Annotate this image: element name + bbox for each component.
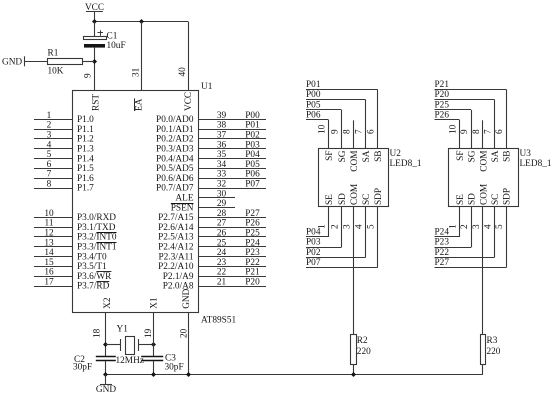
node pin20/ground xyxy=(186,372,191,377)
svg-text:30pF: 30pF xyxy=(73,362,92,372)
svg-text:8: 8 xyxy=(342,129,352,134)
ground symbol GND bottom xyxy=(96,374,116,395)
svg-text:P23: P23 xyxy=(245,248,260,258)
svg-text:P22: P22 xyxy=(245,258,260,268)
wire net P21 to U3 SB xyxy=(435,89,507,91)
svg-text:8: 8 xyxy=(47,180,52,190)
svg-text:39: 39 xyxy=(217,111,227,121)
svg-text:10: 10 xyxy=(448,124,458,134)
wire R1 to RST node xyxy=(83,61,95,63)
wire ground rail xyxy=(106,374,483,376)
node C3/ground xyxy=(151,372,156,377)
svg-text:P07: P07 xyxy=(306,258,321,268)
svg-text:SD: SD xyxy=(338,193,348,205)
svg-text:P0.0/AD0: P0.0/AD0 xyxy=(156,115,194,125)
svg-text:16: 16 xyxy=(44,268,54,278)
wire U1 pin 34 stub xyxy=(199,168,267,170)
svg-text:P1.3: P1.3 xyxy=(77,145,94,155)
svg-text:P00: P00 xyxy=(306,90,321,100)
svg-text:C1: C1 xyxy=(107,32,118,42)
node X2/crystal junction xyxy=(103,342,108,347)
svg-text:P05: P05 xyxy=(245,160,260,170)
svg-text:P20: P20 xyxy=(245,278,260,288)
svg-text:AT89S51: AT89S51 xyxy=(201,316,236,326)
wire net P00 to U2 SA xyxy=(306,99,366,101)
svg-text:SC: SC xyxy=(362,194,372,205)
svg-text:COM: COM xyxy=(350,184,360,205)
wire U1 pin 29 stub xyxy=(199,207,236,209)
wire net P03 to U2 SD xyxy=(306,247,341,249)
capacitor C1 10uF xyxy=(84,30,126,51)
svg-text:P3.4/T0: P3.4/T0 xyxy=(77,252,107,262)
svg-text:P3.2/INT0: P3.2/INT0 xyxy=(77,233,117,243)
wire U1 pin 12 stub xyxy=(34,236,72,238)
wire EA pin 31 xyxy=(141,22,143,92)
svg-text:COM: COM xyxy=(350,151,360,172)
svg-text:X1: X1 xyxy=(150,297,160,309)
svg-text:7: 7 xyxy=(47,170,52,180)
wire U2 COM top pin xyxy=(353,120,355,148)
svg-text:18: 18 xyxy=(93,328,103,338)
svg-text:P1.5: P1.5 xyxy=(77,164,94,174)
U1 pin name EA (active low) xyxy=(134,98,144,111)
power symbol VCC xyxy=(85,3,104,22)
svg-text:9: 9 xyxy=(84,73,94,78)
wire net P25 to U3 SG xyxy=(435,109,472,111)
wire U1 pin 8 stub xyxy=(34,188,72,190)
wire C1 to RST pin 9 xyxy=(94,48,96,91)
wire U1 pin 33 stub xyxy=(199,178,267,180)
wire U1 pin 10 stub xyxy=(34,217,72,219)
svg-text:P06: P06 xyxy=(306,111,321,121)
svg-text:P24: P24 xyxy=(245,238,260,248)
wire U1 pin 24 stub xyxy=(199,256,267,258)
svg-text:R2: R2 xyxy=(357,336,368,346)
svg-text:220: 220 xyxy=(357,347,371,357)
wire U1 pin 17 stub xyxy=(34,286,72,288)
svg-text:P24: P24 xyxy=(435,227,450,237)
IC U2 LED8_1 body xyxy=(319,149,389,207)
U1 pin name PSEN xyxy=(171,203,194,213)
svg-text:21: 21 xyxy=(217,278,227,288)
resistor R1 10K xyxy=(48,49,83,77)
svg-text:P26: P26 xyxy=(245,219,260,229)
svg-text:11: 11 xyxy=(45,219,54,229)
svg-text:P3.6/WR: P3.6/WR xyxy=(77,272,112,282)
svg-text:2: 2 xyxy=(47,121,52,131)
wire U1 pin 23 stub xyxy=(199,266,267,268)
svg-text:P04: P04 xyxy=(245,150,260,160)
wire U1 pin 30 stub xyxy=(199,197,236,199)
svg-text:P23: P23 xyxy=(435,238,450,248)
svg-text:31: 31 xyxy=(132,67,142,77)
svg-text:33: 33 xyxy=(217,170,227,180)
U1 pin name P3.3/INT1 xyxy=(77,243,117,253)
svg-text:P2.7/A15: P2.7/A15 xyxy=(158,213,194,223)
svg-text:13: 13 xyxy=(44,238,54,248)
svg-text:SF: SF xyxy=(456,151,466,161)
svg-text:GND: GND xyxy=(96,385,116,395)
capacitor C3 30pF xyxy=(141,354,176,364)
node RST/R1 junction xyxy=(92,59,97,64)
svg-text:8: 8 xyxy=(472,129,482,134)
wire GND to R1 xyxy=(24,61,48,63)
wire U1 pin 1 stub xyxy=(34,119,72,121)
svg-text:SDP: SDP xyxy=(374,188,384,205)
svg-text:P2.1/A9: P2.1/A9 xyxy=(163,272,194,282)
svg-text:4: 4 xyxy=(355,224,365,229)
wire U1 pin 14 stub xyxy=(34,256,72,258)
svg-text:U3: U3 xyxy=(520,149,532,159)
svg-text:2: 2 xyxy=(460,224,470,229)
U1 pin name P3.6/WR xyxy=(77,272,112,282)
svg-text:P0.3/AD3: P0.3/AD3 xyxy=(156,145,194,155)
wire U1 pin 22 stub xyxy=(199,276,267,278)
wire U1 pin 13 stub xyxy=(34,246,72,248)
wire VCC to C1 xyxy=(94,22,96,37)
svg-text:30: 30 xyxy=(217,189,227,199)
svg-text:P1.1: P1.1 xyxy=(77,125,94,135)
svg-text:SF: SF xyxy=(325,151,335,161)
svg-text:32: 32 xyxy=(217,180,227,190)
svg-text:P1.7: P1.7 xyxy=(77,184,94,194)
svg-text:SG: SG xyxy=(338,150,348,162)
wire U1 pin 37 stub xyxy=(199,138,267,140)
svg-text:17: 17 xyxy=(44,278,54,288)
wire U1 pin 6 stub xyxy=(34,168,72,170)
svg-text:X2: X2 xyxy=(103,297,113,309)
wire U1 pin 7 stub xyxy=(34,178,72,180)
wire U1 pin 15 stub xyxy=(34,266,72,268)
svg-text:35: 35 xyxy=(217,150,227,160)
svg-text:P1.0: P1.0 xyxy=(77,115,94,125)
wire U1 pin 25 stub xyxy=(199,246,267,248)
svg-text:4: 4 xyxy=(47,140,52,150)
wire U1 pin 38 stub xyxy=(199,129,267,131)
svg-text:SB: SB xyxy=(502,151,512,162)
svg-text:25: 25 xyxy=(217,238,227,248)
svg-text:PSEN: PSEN xyxy=(171,203,194,213)
svg-text:P1.6: P1.6 xyxy=(77,174,94,184)
svg-text:P3.1/TXD: P3.1/TXD xyxy=(77,223,116,233)
svg-text:P1.4: P1.4 xyxy=(77,154,94,164)
svg-text:P03: P03 xyxy=(306,238,321,248)
wire U2 COM bottom to resistor xyxy=(353,207,355,335)
wire U1 pin 39 stub xyxy=(199,119,267,121)
svg-text:P02: P02 xyxy=(306,248,321,258)
wire VCC pin 40 xyxy=(188,22,190,92)
wire U1 pin 35 stub xyxy=(199,158,267,160)
svg-text:7: 7 xyxy=(355,129,365,134)
svg-text:SG: SG xyxy=(468,150,478,162)
ground port GND left xyxy=(2,56,25,67)
IC U1 AT89S51 body xyxy=(73,91,199,313)
wire net P06 to U2 SF xyxy=(306,119,329,121)
svg-text:COM: COM xyxy=(479,151,489,172)
resistor R2 220 xyxy=(351,335,372,365)
wire U1 pin 2 stub xyxy=(34,129,72,131)
svg-text:36: 36 xyxy=(217,140,227,150)
svg-text:10uF: 10uF xyxy=(107,41,126,51)
svg-text:P0.7/AD7: P0.7/AD7 xyxy=(156,184,194,194)
svg-text:SA: SA xyxy=(362,150,372,162)
svg-text:P04: P04 xyxy=(306,227,321,237)
svg-text:28: 28 xyxy=(217,209,227,219)
wire U1 pin 27 stub xyxy=(199,227,267,229)
svg-text:29: 29 xyxy=(217,199,227,209)
svg-text:RST: RST xyxy=(92,94,102,111)
svg-text:3: 3 xyxy=(342,224,352,229)
svg-text:P27: P27 xyxy=(245,209,260,219)
wire R3 to ground rail xyxy=(482,365,484,375)
svg-text:LED8_1: LED8_1 xyxy=(390,159,422,169)
wire net P27 to U3 SDP xyxy=(435,267,507,269)
svg-text:5: 5 xyxy=(47,150,52,160)
svg-text:P2.2/A10: P2.2/A10 xyxy=(158,262,194,272)
wire net P22 to U3 SC xyxy=(435,257,495,259)
svg-text:SD: SD xyxy=(468,193,478,205)
svg-text:15: 15 xyxy=(44,258,54,268)
svg-text:12: 12 xyxy=(44,229,54,239)
svg-text:23: 23 xyxy=(217,258,227,268)
svg-text:3: 3 xyxy=(472,224,482,229)
wire C2 to ground rail xyxy=(105,361,107,374)
svg-text:3: 3 xyxy=(47,131,52,141)
svg-text:EA: EA xyxy=(134,98,144,111)
wire U3 COM bottom to resistor xyxy=(482,207,484,335)
svg-text:37: 37 xyxy=(217,131,227,141)
svg-text:COM: COM xyxy=(479,184,489,205)
wire U1 pin 5 stub xyxy=(34,158,72,160)
svg-text:10: 10 xyxy=(44,209,54,219)
wire U1 pin 28 stub xyxy=(199,217,267,219)
svg-text:SB: SB xyxy=(374,151,384,162)
svg-text:P0.5/AD5: P0.5/AD5 xyxy=(156,164,194,174)
svg-text:P01: P01 xyxy=(245,121,260,131)
svg-text:9: 9 xyxy=(330,129,340,134)
svg-text:P27: P27 xyxy=(435,258,450,268)
svg-text:P21: P21 xyxy=(245,268,260,278)
node VCC/C1 junction xyxy=(92,19,97,24)
wire net P05 to U2 SG xyxy=(306,109,341,111)
svg-text:19: 19 xyxy=(144,328,154,338)
svg-text:P3.7/RD: P3.7/RD xyxy=(77,282,110,292)
svg-text:VCC: VCC xyxy=(184,92,194,111)
svg-text:P07: P07 xyxy=(245,180,260,190)
node R2/ground xyxy=(351,372,356,377)
svg-text:P2.5/A13: P2.5/A13 xyxy=(158,233,194,243)
svg-text:7: 7 xyxy=(483,129,493,134)
capacitor C2 30pF xyxy=(74,355,116,365)
svg-text:12MHz: 12MHz xyxy=(116,356,144,366)
svg-text:P2.3/A11: P2.3/A11 xyxy=(158,252,193,262)
svg-text:P2.6/A14: P2.6/A14 xyxy=(158,223,194,233)
svg-text:P03: P03 xyxy=(245,140,260,150)
wire R2 to ground rail xyxy=(353,365,355,375)
svg-text:6: 6 xyxy=(495,129,505,134)
wire net P24 to U3 SE xyxy=(435,236,460,238)
svg-text:5: 5 xyxy=(495,224,505,229)
svg-text:P05: P05 xyxy=(306,101,321,111)
svg-text:220: 220 xyxy=(487,347,501,357)
svg-text:P21: P21 xyxy=(435,80,450,90)
svg-text:P0.4/AD4: P0.4/AD4 xyxy=(156,154,194,164)
svg-text:P0.1/AD1: P0.1/AD1 xyxy=(156,125,194,135)
svg-text:P22: P22 xyxy=(435,248,450,258)
svg-text:38: 38 xyxy=(217,121,227,131)
svg-text:P2.4/A12: P2.4/A12 xyxy=(158,243,194,253)
svg-text:10: 10 xyxy=(318,124,328,134)
wire U3 COM top pin xyxy=(482,120,484,148)
svg-text:P01: P01 xyxy=(306,80,321,90)
svg-text:Y1: Y1 xyxy=(117,325,129,335)
svg-text:P1.2: P1.2 xyxy=(77,135,94,145)
svg-text:SDP: SDP xyxy=(502,188,512,205)
svg-text:P02: P02 xyxy=(245,131,260,141)
svg-text:34: 34 xyxy=(217,160,227,170)
wire net P01 to U2 SB xyxy=(306,89,378,91)
crystal Y1 12MHz xyxy=(106,325,153,367)
wire net P02 to U2 SC xyxy=(306,257,366,259)
resistor R3 220 xyxy=(481,335,501,365)
svg-text:P06: P06 xyxy=(245,170,260,180)
svg-text:R3: R3 xyxy=(487,336,498,346)
svg-text:R1: R1 xyxy=(48,49,59,59)
svg-text:27: 27 xyxy=(217,219,227,229)
wire net P26 to U3 SF xyxy=(435,119,460,121)
wire net P04 to U2 SE xyxy=(306,236,329,238)
svg-text:SE: SE xyxy=(325,194,335,205)
svg-text:P25: P25 xyxy=(435,101,450,111)
svg-text:P3.0/RXD: P3.0/RXD xyxy=(77,213,116,223)
svg-text:22: 22 xyxy=(217,268,227,278)
wire U1 pin 26 stub xyxy=(199,236,267,238)
svg-text:P25: P25 xyxy=(245,229,260,239)
svg-text:GND: GND xyxy=(2,58,22,68)
svg-text:2: 2 xyxy=(330,224,340,229)
svg-text:P2.0/A8: P2.0/A8 xyxy=(163,282,194,292)
node X1/crystal junction xyxy=(151,342,156,347)
wire X1 pin 19 xyxy=(153,313,155,357)
svg-text:U2: U2 xyxy=(390,149,402,159)
svg-text:P0.6/AD6: P0.6/AD6 xyxy=(156,174,194,184)
wire net P20 to U3 SA xyxy=(435,99,495,101)
svg-text:SE: SE xyxy=(456,194,466,205)
svg-text:1: 1 xyxy=(47,111,52,121)
svg-text:9: 9 xyxy=(460,129,470,134)
svg-text:P26: P26 xyxy=(435,111,450,121)
wire U1 pin 4 stub xyxy=(34,148,72,150)
node C2/ground xyxy=(103,372,108,377)
U1 pin name P3.7/RD xyxy=(77,282,110,292)
svg-text:24: 24 xyxy=(217,248,227,258)
svg-text:20: 20 xyxy=(179,328,189,338)
svg-text:14: 14 xyxy=(44,248,54,258)
svg-text:U1: U1 xyxy=(201,82,213,92)
svg-text:6: 6 xyxy=(367,129,377,134)
svg-text:P3.3/INT1: P3.3/INT1 xyxy=(77,243,117,253)
wire C3 to ground rail xyxy=(153,361,155,374)
wire U1 pin 16 stub xyxy=(34,276,72,278)
svg-text:10K: 10K xyxy=(48,67,64,77)
wire U1 pin 36 stub xyxy=(199,148,267,150)
svg-text:SA: SA xyxy=(491,150,501,162)
wire X2 pin 18 xyxy=(105,313,107,357)
svg-text:6: 6 xyxy=(47,160,52,170)
wire GND pin 20 xyxy=(188,313,190,375)
svg-text:1: 1 xyxy=(448,224,458,229)
svg-text:P20: P20 xyxy=(435,90,450,100)
svg-text:LED8_1: LED8_1 xyxy=(520,159,552,169)
wire net P23 to U3 SD xyxy=(435,247,472,249)
svg-text:P0.2/AD2: P0.2/AD2 xyxy=(156,135,194,145)
wire U1 pin 3 stub xyxy=(34,138,72,140)
svg-text:4: 4 xyxy=(483,224,493,229)
wire net P07 to U2 SDP xyxy=(306,267,378,269)
wire U1 pin 21 stub xyxy=(199,286,267,288)
svg-text:26: 26 xyxy=(217,229,227,239)
svg-text:ALE: ALE xyxy=(175,194,193,204)
wire U1 pin 32 stub xyxy=(199,188,267,190)
svg-text:P3.5/T1: P3.5/T1 xyxy=(77,262,107,272)
svg-text:40: 40 xyxy=(178,67,188,77)
U1 pin name P3.2/INT0 xyxy=(77,233,117,243)
IC U3 LED8_1 body xyxy=(449,149,519,207)
svg-text:30pF: 30pF xyxy=(165,362,184,372)
svg-text:SC: SC xyxy=(491,194,501,205)
svg-text:5: 5 xyxy=(367,224,377,229)
wire U1 pin 11 stub xyxy=(34,227,72,229)
node EA junction xyxy=(139,19,144,24)
wire VCC rail xyxy=(94,21,188,23)
svg-text:P00: P00 xyxy=(245,111,260,121)
